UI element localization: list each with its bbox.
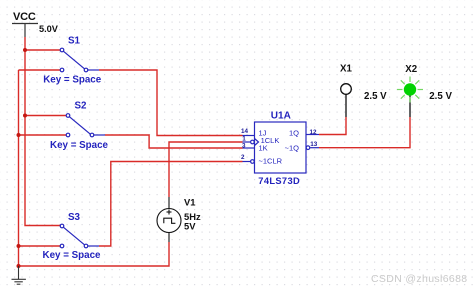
svg-text:S2: S2: [75, 100, 88, 111]
svg-text:Key = Space: Key = Space: [50, 140, 109, 151]
svg-text:V1: V1: [184, 197, 195, 208]
svg-text:Key = Space: Key = Space: [43, 250, 102, 261]
svg-text:CSDN @zhusl6688: CSDN @zhusl6688: [371, 273, 467, 285]
ground symbol: [12, 266, 26, 284]
pin 1 stub + bubble: [243, 141, 251, 143]
svg-text:3: 3: [242, 143, 246, 150]
clock wedge: [255, 139, 259, 146]
svg-text:5V: 5V: [184, 221, 196, 232]
pin 13 bubble + stub: [306, 146, 310, 150]
LED probe X2: [397, 77, 423, 118]
svg-text:X1: X1: [340, 64, 352, 75]
svg-text:2.5 V: 2.5 V: [364, 91, 387, 102]
svg-text:Key = Space: Key = Space: [43, 74, 102, 85]
svg-text:5.0V: 5.0V: [39, 24, 59, 34]
wire VCC rail vertical: [19, 37, 411, 266]
VCC power symbol: [12, 24, 38, 38]
wire pin 12 to probe X1: [319, 117, 346, 135]
pin 12 stub: [306, 134, 319, 136]
junction at rail/S2: [23, 114, 27, 118]
wire rail to S1 pole: [25, 49, 60, 51]
op IC U1A 74LS73D: [243, 122, 320, 173]
svg-text:13: 13: [310, 141, 318, 148]
svg-text:74LS73D: 74LS73D: [258, 176, 300, 186]
svg-text:1Q: 1Q: [289, 129, 299, 138]
svg-text:~1Q: ~1Q: [285, 144, 300, 153]
pin 14 stub: [243, 135, 255, 137]
junction at rail/S1: [23, 48, 27, 52]
svg-text:2: 2: [241, 154, 245, 161]
wire S1 output to pin 14: [99, 70, 243, 136]
wire pin 13 to LED X2: [319, 117, 410, 148]
wire to S1 lower contact: [19, 69, 61, 71]
wire to S3 lower contact: [19, 245, 61, 247]
junction at gnd rail/S2: [17, 133, 21, 137]
switch S2: [66, 114, 105, 137]
switch S1: [60, 48, 99, 72]
wire V1 to pin 1 clock: [169, 142, 243, 197]
junction at gnd rail/S3: [17, 244, 21, 248]
svg-text:12: 12: [310, 129, 318, 136]
svg-text:S1: S1: [68, 35, 81, 46]
wire ground rail vertical: [19, 70, 170, 266]
svg-text:14: 14: [241, 128, 249, 135]
square wave glyph: [164, 218, 176, 223]
svg-text:X2: X2: [405, 64, 417, 75]
wire to S2 lower contact: [19, 134, 67, 136]
switch S3: [60, 224, 99, 248]
probe X1: [341, 84, 352, 117]
svg-text:1K: 1K: [259, 144, 268, 153]
svg-text:~1CLR: ~1CLR: [259, 156, 283, 165]
svg-text:1: 1: [242, 136, 246, 143]
svg-text:U1A: U1A: [271, 110, 291, 121]
svg-text:VCC: VCC: [13, 11, 36, 23]
junction at gnd rail/ground: [17, 264, 21, 268]
svg-text:2.5 V: 2.5 V: [429, 91, 452, 102]
wire S3 output to pin 2: [99, 162, 243, 247]
voltage source V1: [157, 197, 181, 242]
wire rail to S2 pole: [25, 115, 66, 117]
wire S2 output to pin 3: [105, 135, 243, 148]
plus sign: [167, 211, 172, 213]
pin 3 stub: [243, 147, 255, 149]
pin 2 stub + bubble: [243, 161, 251, 163]
svg-text:S3: S3: [68, 212, 81, 223]
